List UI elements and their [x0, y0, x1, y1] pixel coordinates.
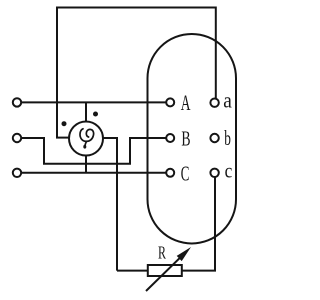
node a	[210, 99, 218, 107]
polarity dot right	[93, 112, 98, 117]
resistor R arrow shaft	[146, 251, 187, 291]
wire meter top stub to phase A	[85, 102, 87, 122]
label phi in meter	[80, 129, 94, 146]
resistor R arrowhead	[177, 247, 191, 261]
node A	[166, 98, 174, 106]
wire phase A	[21, 101, 166, 103]
svg-text:a: a	[223, 87, 232, 113]
wire meter bottom stub to phase C	[85, 155, 87, 173]
wire meter right stub and drop to bottom bus	[103, 138, 118, 271]
wire phase B left segment with jog down	[21, 138, 166, 164]
polarity dot left	[62, 121, 67, 126]
wire phase C	[21, 172, 166, 174]
terminal circle left A	[13, 98, 21, 106]
phase meter P1 circle	[69, 122, 103, 156]
wire meter left stub	[56, 137, 70, 139]
node c	[210, 169, 218, 177]
wire bottom bus right of resistor up to terminal c	[182, 177, 216, 271]
node B	[166, 134, 174, 142]
wire bottom bus left of resistor	[117, 270, 148, 272]
resistor R body	[148, 265, 182, 276]
svg-text:C: C	[181, 161, 190, 185]
machine M1 winding enclosure (stadium outline)	[148, 34, 237, 244]
terminal circle left C	[13, 169, 21, 177]
node C	[166, 169, 174, 177]
svg-text:b: b	[224, 126, 231, 150]
svg-text:B: B	[181, 126, 190, 150]
svg-text:A: A	[181, 91, 191, 116]
terminal circle left B	[13, 134, 21, 142]
svg-text:R: R	[158, 245, 166, 264]
wire top bus from meter left branch to terminal a	[57, 8, 216, 139]
node b	[210, 134, 218, 142]
svg-text:c: c	[225, 160, 233, 183]
